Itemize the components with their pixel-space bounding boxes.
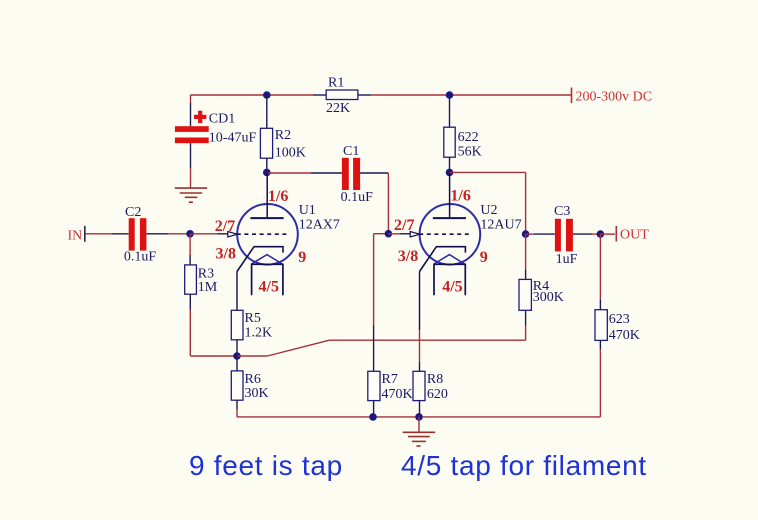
svg-text:4/5 tap for filament: 4/5 tap for filament (401, 450, 647, 481)
svg-text:622: 622 (458, 130, 479, 145)
wire grid junction to U1 arrow (190, 233, 228, 235)
svg-text:470K: 470K (609, 328, 640, 343)
svg-text:R5: R5 (245, 311, 261, 326)
wire R7 bottom (373, 401, 375, 417)
svg-text:3/8: 3/8 (216, 246, 236, 263)
resistor R8 (413, 371, 448, 402)
wire plate junction to R4 branch (450, 172, 526, 234)
capacitor CD1 (175, 111, 257, 146)
wire R4 bottom to feedback (525, 310, 527, 340)
port OUT (600, 226, 649, 243)
svg-text:U1: U1 (299, 203, 316, 218)
junction node top-right (446, 91, 454, 99)
junction node U1 cathode net (233, 352, 241, 360)
wire grid junction to U2 arrow (388, 233, 410, 235)
capacitor C2 (124, 205, 156, 264)
wire U2 cathode to R8 (419, 272, 421, 372)
wire R6 bottom to rail (236, 400, 238, 417)
wire R3 bottom to cathode node (190, 294, 237, 356)
wire C3 right (573, 233, 601, 235)
resistor 623 470K (595, 310, 640, 343)
junction node R7 rail (369, 413, 377, 421)
ground under CD1 (175, 188, 207, 202)
resistor R6 (231, 371, 268, 401)
svg-text:0.1uF: 0.1uF (124, 249, 156, 264)
wire R2 bottom (266, 158, 268, 172)
svg-text:R6: R6 (245, 372, 261, 387)
svg-text:470K: 470K (382, 387, 413, 402)
svg-text:C1: C1 (343, 144, 359, 159)
svg-text:22K: 22K (326, 101, 350, 116)
wire C1 to U2 grid (360, 173, 388, 234)
svg-text:OUT: OUT (620, 228, 649, 243)
junction node C3 left (522, 230, 530, 238)
svg-text:620: 620 (427, 387, 448, 402)
svg-text:1.2K: 1.2K (245, 325, 273, 340)
junction node top-left (263, 91, 271, 99)
svg-text:1/6: 1/6 (268, 188, 288, 205)
U2 filament bracket pins 4/5 (434, 264, 465, 295)
wire R6 top (236, 356, 238, 371)
svg-text:R7: R7 (382, 372, 398, 387)
U2 grid arrow (410, 232, 419, 237)
svg-text:9: 9 (480, 249, 488, 266)
resistor R5 (231, 310, 272, 340)
junction node U2 plate (446, 169, 454, 177)
note 4/5 tap for filament (401, 450, 647, 481)
U1 filament bracket pins 4/5 (252, 264, 283, 295)
svg-text:9 feet is tap: 9 feet is tap (189, 450, 343, 481)
wire plate junction to C1 (267, 172, 342, 174)
capacitor C1 (341, 144, 374, 205)
wire U2 grid to R7 (374, 234, 389, 372)
svg-text:0.1uF: 0.1uF (341, 190, 374, 205)
U2 plate and riser pin 1/6 (433, 172, 471, 218)
wire IN to C2 (86, 233, 129, 235)
svg-text:56K: 56K (458, 145, 482, 160)
svg-text:U2: U2 (480, 203, 497, 218)
wire 622 top (449, 95, 451, 127)
triode U2 envelope (420, 203, 522, 265)
U1 grid dashed, pin 2/7 (215, 218, 289, 235)
ground bottom (403, 432, 436, 446)
svg-text:4/5: 4/5 (442, 278, 462, 295)
wire bottom rail (237, 416, 600, 418)
junction node U1 plate (263, 169, 271, 177)
svg-text:C3: C3 (554, 204, 570, 219)
wire C3 left (526, 233, 555, 235)
U1 heater caret (252, 255, 283, 264)
svg-text:12AX7: 12AX7 (299, 217, 340, 232)
resistor R1 (326, 76, 358, 117)
svg-text:30K: 30K (245, 386, 269, 401)
svg-text:3/8: 3/8 (398, 248, 418, 265)
wire 623 bottom to rail (599, 340, 601, 417)
resistor 622 56K (444, 127, 482, 159)
svg-text:R1: R1 (328, 76, 344, 91)
wire C2 to grid junction (146, 233, 190, 235)
svg-text:200-300v DC: 200-300v DC (576, 90, 653, 105)
svg-text:R8: R8 (427, 372, 443, 387)
wire top rail left (191, 94, 267, 96)
capacitor C3 (554, 204, 578, 267)
resistor R4 (519, 279, 564, 311)
resistor R7 (368, 371, 413, 402)
junction node ground rail (415, 413, 423, 421)
wire R2 top (266, 95, 268, 128)
wire R4 top (525, 234, 527, 279)
svg-text:623: 623 (609, 312, 630, 327)
svg-text:100K: 100K (275, 146, 306, 161)
svg-text:1M: 1M (198, 280, 218, 295)
junction node U1 grid (186, 230, 194, 238)
svg-text:4/5: 4/5 (259, 278, 279, 295)
wire CD1 drop (190, 95, 192, 126)
svg-text:9: 9 (298, 249, 306, 266)
wire feedback from R4 (237, 340, 526, 356)
junction node OUT (597, 230, 605, 238)
wire ground stub (418, 417, 420, 432)
wire R5 bottom (236, 340, 238, 356)
wire top rail mid (267, 94, 450, 96)
junction node U2 grid (385, 230, 393, 238)
wire 623 top (599, 234, 601, 310)
U1 cathode, pin 3/8 (216, 246, 307, 272)
svg-text:R2: R2 (275, 128, 291, 143)
svg-text:C2: C2 (125, 205, 141, 220)
U2 heater caret (434, 255, 465, 264)
svg-text:10-47uF: 10-47uF (209, 131, 257, 146)
triode U1 envelope (237, 203, 340, 265)
resistor R2 (260, 128, 306, 161)
wire R3 top (189, 234, 191, 265)
svg-text:12AU7: 12AU7 (480, 217, 521, 232)
U2 cathode, pin 3/8 (398, 247, 488, 272)
svg-text:300K: 300K (533, 290, 564, 305)
svg-text:1/6: 1/6 (450, 187, 470, 204)
U2 grid dashed, pin 2/7 (394, 217, 471, 234)
wire CD1 to ground (190, 143, 192, 188)
wire R8 bottom (419, 401, 421, 417)
note 9 feet is tap (189, 450, 343, 481)
U1 plate and riser pin 1/6 (250, 172, 288, 218)
wire 622 bottom (449, 157, 451, 172)
wire U1 cathode to R5 (236, 272, 238, 311)
port 200-300v DC (572, 88, 653, 105)
wire top rail right (450, 94, 572, 96)
resistor R3 (185, 265, 218, 295)
svg-text:IN: IN (68, 229, 83, 244)
port IN (68, 226, 85, 244)
U1 grid arrow (228, 232, 237, 237)
svg-text:CD1: CD1 (209, 112, 235, 127)
svg-text:1uF: 1uF (556, 252, 578, 267)
